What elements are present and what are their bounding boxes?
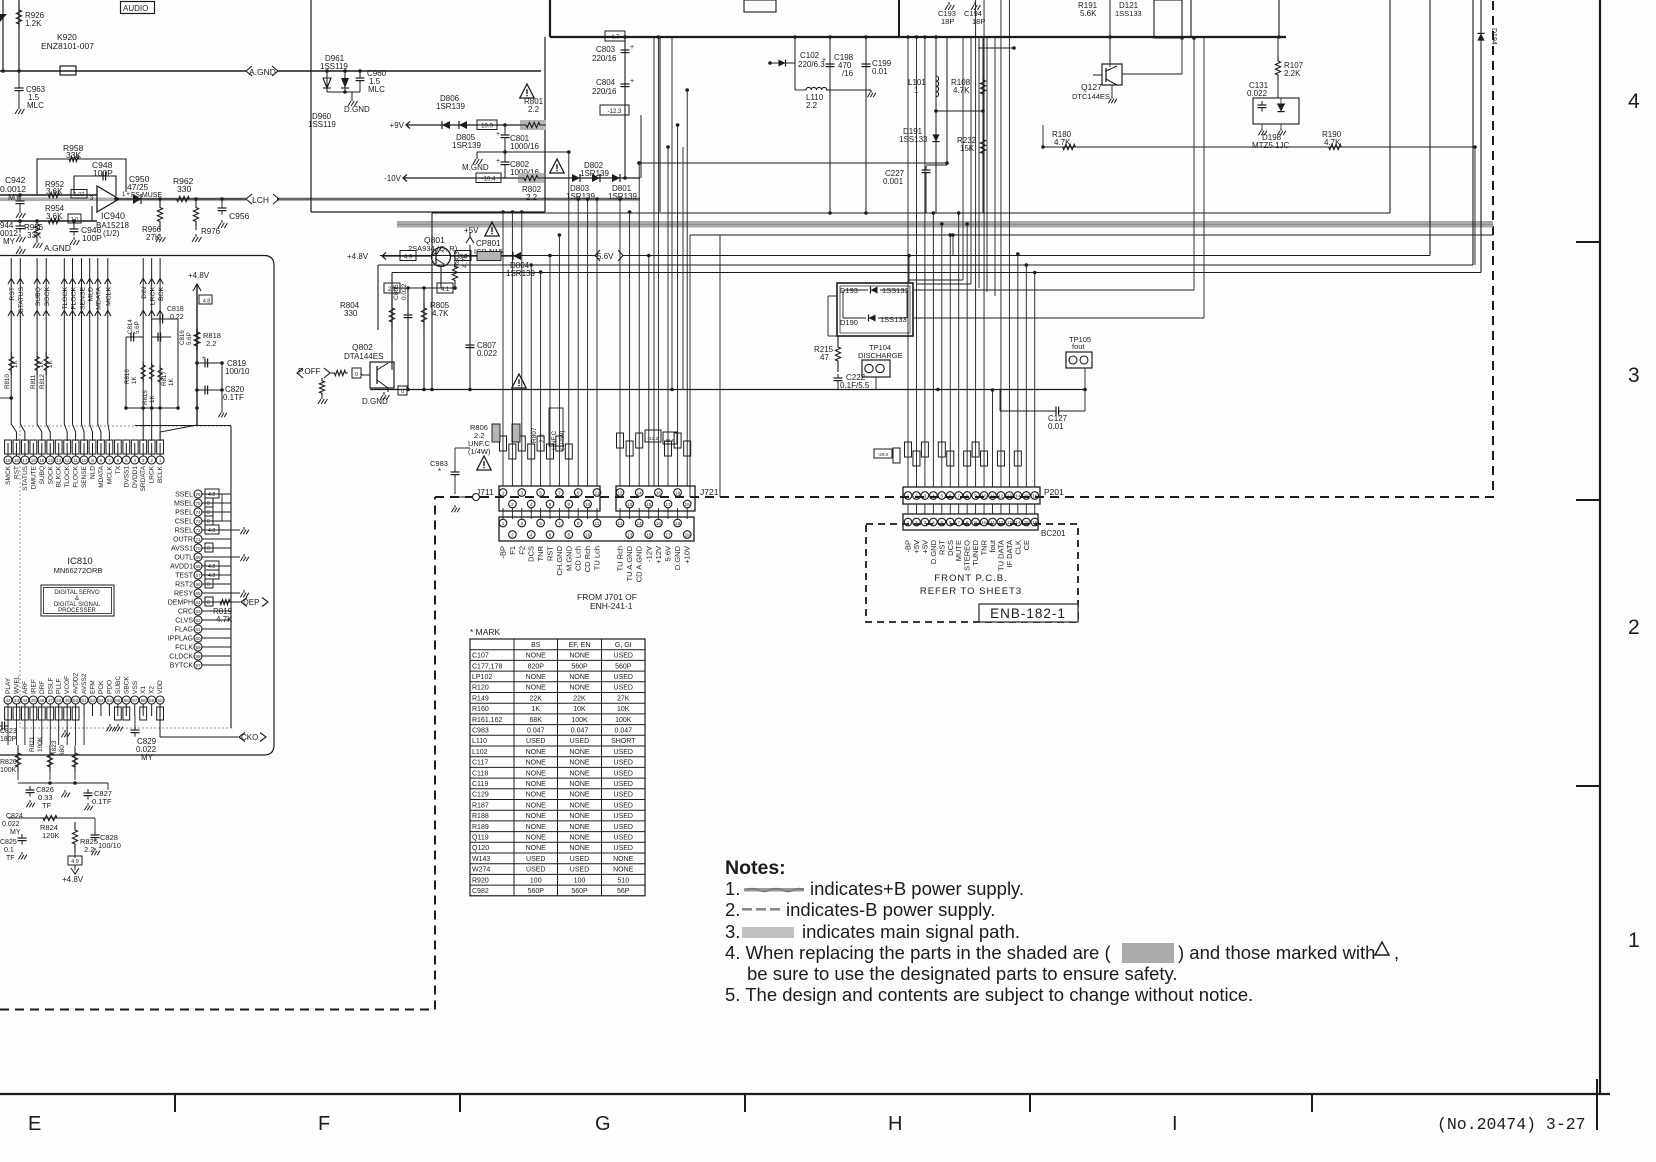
svg-text:7: 7 — [558, 521, 561, 526]
svg-text:R812: R812 — [39, 374, 46, 389]
svg-text:TEST: TEST — [175, 573, 194, 580]
svg-text:220/16: 220/16 — [592, 87, 617, 96]
svg-text:BC201: BC201 — [1041, 529, 1066, 538]
svg-text:68: 68 — [195, 564, 201, 569]
svg-text:15: 15 — [646, 532, 652, 537]
svg-text:1K: 1K — [149, 395, 156, 403]
svg-text:RSEL: RSEL — [175, 528, 193, 535]
svg-text:RST2: RST2 — [175, 582, 193, 589]
svg-text:1: 1 — [502, 490, 505, 495]
svg-text:MSEL: MSEL — [174, 501, 193, 508]
svg-text:Q120: Q120 — [472, 845, 489, 852]
svg-text:18P: 18P — [941, 17, 954, 26]
svg-text:R920: R920 — [472, 877, 489, 884]
svg-text:R188: R188 — [472, 813, 489, 820]
svg-text:L102: L102 — [472, 749, 488, 756]
svg-text:1K: 1K — [168, 378, 175, 386]
svg-text:SHORT: SHORT — [611, 738, 636, 745]
svg-text:NONE: NONE — [569, 781, 590, 788]
svg-text:PCK: PCK — [98, 680, 105, 694]
svg-text:CD Rch: CD Rch — [583, 546, 592, 572]
svg-text:4: 4 — [530, 502, 533, 507]
svg-text:17: 17 — [665, 532, 671, 537]
svg-text:LRCK: LRCK — [149, 465, 156, 483]
svg-text:11: 11 — [595, 521, 600, 526]
svg-text:16: 16 — [656, 490, 662, 495]
svg-text:11: 11 — [595, 490, 600, 495]
svg-text:+: + — [202, 355, 206, 362]
svg-text:72: 72 — [195, 528, 201, 533]
svg-text:C983: C983 — [472, 728, 489, 735]
svg-text:USED: USED — [570, 856, 589, 863]
svg-text:8: 8 — [568, 502, 571, 507]
svg-text:4.8: 4.8 — [208, 528, 215, 534]
svg-text:9: 9 — [91, 458, 94, 463]
svg-text:NONE: NONE — [526, 674, 547, 681]
svg-text:RST: RST — [9, 287, 16, 301]
svg-text:19: 19 — [5, 458, 11, 463]
svg-text:AUDIO: AUDIO — [123, 4, 148, 13]
svg-text:DTA144ES: DTA144ES — [344, 352, 383, 361]
svg-text:R976: R976 — [201, 227, 221, 236]
svg-text:0.1TF: 0.1TF — [223, 393, 244, 402]
svg-text:PLAY: PLAY — [5, 677, 12, 694]
svg-text:15: 15 — [39, 458, 45, 463]
svg-text:L110: L110 — [472, 738, 487, 745]
svg-text:11: 11 — [990, 493, 995, 498]
svg-text:be sure to use the designated: be sure to use the designated parts to e… — [747, 963, 1178, 984]
svg-text:OUTL: OUTL — [174, 555, 193, 562]
svg-text:MY: MY — [141, 753, 154, 762]
svg-text:indicates main signal path.: indicates main signal path. — [802, 921, 1020, 942]
svg-text:R821: R821 — [29, 736, 36, 752]
svg-text:ENZ8101-007: ENZ8101-007 — [41, 41, 94, 51]
svg-text:8: 8 — [100, 458, 103, 463]
svg-text:R161,162: R161,162 — [472, 717, 502, 724]
svg-text:EF, EN: EF, EN — [569, 642, 591, 649]
svg-text:61: 61 — [195, 627, 201, 632]
svg-text:(1/4W): (1/4W) — [559, 431, 566, 451]
svg-text:MLD: MLD — [88, 287, 95, 301]
svg-text:TLOCK: TLOCK — [64, 465, 71, 487]
svg-text:10K: 10K — [617, 706, 630, 713]
svg-text:53: 53 — [98, 698, 104, 703]
svg-text:BYTCK: BYTCK — [170, 663, 194, 670]
svg-text:9: 9 — [577, 490, 580, 495]
svg-text:7: 7 — [108, 458, 111, 463]
svg-text:NONE: NONE — [569, 685, 590, 692]
svg-text:62: 62 — [195, 618, 201, 623]
svg-text:4.8: 4.8 — [208, 492, 215, 498]
svg-text:51: 51 — [81, 698, 87, 703]
svg-text:13: 13 — [627, 502, 633, 507]
svg-text:12: 12 — [65, 458, 71, 463]
svg-text:57: 57 — [195, 663, 201, 668]
svg-text:SUBC: SUBC — [115, 676, 122, 694]
svg-text:12: 12 — [617, 490, 623, 495]
svg-text:5: 5 — [539, 490, 542, 495]
svg-text:100P: 100P — [93, 168, 113, 178]
svg-text:560P: 560P — [528, 888, 545, 895]
svg-text:-10.4: -10.4 — [482, 177, 496, 183]
svg-text:1.02: 1.02 — [74, 192, 85, 198]
svg-text:VDD: VDD — [157, 680, 164, 694]
svg-text:AVSS2: AVSS2 — [81, 673, 88, 694]
svg-text:0.022: 0.022 — [2, 821, 20, 828]
svg-text:USED: USED — [526, 738, 545, 745]
svg-text:14: 14 — [48, 458, 54, 463]
svg-text:(No.20474) 3-27: (No.20474) 3-27 — [1437, 1115, 1586, 1134]
svg-text:65: 65 — [195, 591, 201, 596]
svg-text:5.6P: 5.6P — [134, 321, 141, 334]
svg-text:1K: 1K — [47, 360, 54, 368]
svg-text:P201: P201 — [1044, 487, 1064, 497]
svg-text:LCH: LCH — [252, 195, 269, 205]
svg-text:BCK: BCK — [158, 287, 165, 301]
svg-text:50: 50 — [73, 698, 79, 703]
svg-text:NONE: NONE — [526, 749, 547, 756]
svg-text:0.047: 0.047 — [527, 728, 545, 735]
svg-text:USED: USED — [570, 867, 589, 874]
svg-text:74: 74 — [195, 510, 201, 515]
svg-text:100K: 100K — [615, 717, 632, 724]
svg-text:0: 0 — [207, 501, 210, 507]
svg-text:17: 17 — [22, 458, 28, 463]
svg-text:0.01: 0.01 — [1048, 422, 1064, 431]
svg-text:UNF.C: UNF.C — [551, 431, 558, 450]
svg-text:4: 4 — [133, 458, 136, 463]
svg-text:D.GND: D.GND — [673, 545, 682, 570]
svg-text:67: 67 — [195, 573, 201, 578]
svg-text:DMUTE: DMUTE — [30, 465, 37, 489]
svg-text:MLC: MLC — [368, 85, 385, 94]
svg-text:0.022: 0.022 — [1247, 89, 1268, 98]
svg-text:4.8: 4.8 — [208, 564, 215, 570]
svg-text:SOCK: SOCK — [44, 287, 51, 307]
svg-text:P.OFF: P.OFF — [298, 367, 321, 376]
svg-text:*: * — [438, 467, 441, 476]
svg-text:C118: C118 — [472, 770, 488, 777]
svg-text:12: 12 — [617, 521, 623, 526]
svg-text:F: F — [318, 1113, 330, 1135]
svg-text:BS: BS — [531, 642, 541, 649]
svg-text:55: 55 — [115, 698, 121, 703]
svg-text:MN66272ORB: MN66272ORB — [54, 566, 103, 575]
svg-text:PLLF: PLLF — [56, 678, 63, 694]
svg-text:FLOCK: FLOCK — [73, 465, 80, 487]
svg-text:R187: R187 — [472, 802, 489, 809]
svg-text:C825: C825 — [0, 839, 17, 846]
svg-text:16: 16 — [1032, 493, 1038, 498]
svg-text:RST: RST — [546, 546, 555, 561]
svg-text:5.6K: 5.6K — [1080, 9, 1097, 18]
svg-text:0.022: 0.022 — [477, 349, 498, 358]
svg-text:1K: 1K — [38, 360, 45, 368]
svg-text:1: 1 — [159, 458, 162, 463]
svg-text:120K: 120K — [42, 831, 60, 840]
svg-text:3: 3 — [1628, 364, 1640, 387]
svg-text:R160: R160 — [472, 706, 489, 713]
svg-text:4: 4 — [932, 493, 935, 498]
svg-text:NONE: NONE — [569, 653, 590, 660]
svg-text:TX: TX — [115, 465, 122, 474]
svg-text:0: 0 — [207, 546, 210, 552]
svg-text:USED: USED — [614, 653, 633, 660]
svg-text:6: 6 — [949, 493, 952, 498]
svg-text:47: 47 — [820, 353, 829, 362]
svg-text:NONE: NONE — [569, 770, 590, 777]
svg-text:R817: R817 — [161, 371, 168, 386]
svg-text:NONE: NONE — [569, 845, 590, 852]
svg-text:SBCK: SBCK — [123, 676, 130, 694]
svg-text:49: 49 — [65, 698, 71, 703]
svg-text:W274: W274 — [472, 867, 490, 874]
svg-text:1SR139: 1SR139 — [436, 102, 465, 111]
svg-text:-12V: -12V — [644, 546, 653, 562]
svg-text:4.8: 4.8 — [203, 299, 210, 305]
svg-text:0: 0 — [207, 510, 210, 516]
svg-text:DIN: DIN — [141, 287, 148, 299]
svg-text:13: 13 — [1007, 493, 1013, 498]
svg-text:44: 44 — [22, 698, 28, 703]
svg-text:R816: R816 — [124, 369, 131, 384]
svg-text:13: 13 — [627, 532, 633, 537]
svg-text:1: 1 — [914, 86, 919, 95]
svg-text:TF: TF — [42, 801, 52, 810]
svg-text:C117: C117 — [472, 760, 488, 767]
svg-text:5: 5 — [125, 458, 128, 463]
svg-text:USED: USED — [614, 835, 633, 842]
svg-text:1: 1 — [907, 493, 910, 498]
svg-text:Q802: Q802 — [352, 342, 373, 352]
svg-text:C814: C814 — [127, 319, 134, 334]
svg-text:560P: 560P — [615, 663, 632, 670]
svg-text:0.022: 0.022 — [401, 283, 408, 300]
svg-text:USED: USED — [614, 813, 633, 820]
svg-text:(1/2): (1/2) — [103, 229, 120, 238]
svg-text:2.2K: 2.2K — [1284, 69, 1301, 78]
svg-text:R815: R815 — [142, 390, 149, 405]
svg-text:DVSS1: DVSS1 — [123, 466, 130, 488]
svg-text:4.7K: 4.7K — [432, 309, 449, 318]
svg-text:0.001: 0.001 — [883, 177, 904, 186]
svg-text:+9V: +9V — [390, 121, 405, 130]
svg-text:C982: C982 — [472, 888, 489, 895]
svg-text:0: 0 — [207, 582, 210, 588]
svg-text:7: 7 — [957, 520, 960, 525]
svg-text:NONE: NONE — [569, 824, 590, 831]
svg-text:17: 17 — [665, 502, 671, 507]
svg-text:CD Lch: CD Lch — [574, 546, 583, 571]
svg-text:F2: F2 — [517, 546, 526, 555]
svg-text:75: 75 — [195, 501, 201, 506]
svg-text:2: 2 — [1628, 616, 1640, 639]
svg-text:USED: USED — [614, 802, 633, 809]
svg-text:C129: C129 — [472, 792, 489, 799]
svg-text:16: 16 — [656, 521, 662, 526]
svg-text:F1: F1 — [508, 546, 517, 555]
svg-text:7: 7 — [957, 493, 960, 498]
svg-text:100: 100 — [574, 877, 586, 884]
svg-text:G: G — [595, 1113, 611, 1135]
svg-text:5. The design and contents are: 5. The design and contents are subject t… — [725, 984, 1253, 1005]
svg-text:NONE: NONE — [526, 781, 547, 788]
svg-text:10: 10 — [585, 502, 591, 507]
svg-text:NLD: NLD — [90, 466, 97, 479]
svg-text:0.047: 0.047 — [571, 728, 589, 735]
svg-text:C816: C816 — [179, 330, 186, 345]
svg-text:CD A.GND: CD A.GND — [635, 545, 644, 582]
svg-text:560P: 560P — [571, 888, 588, 895]
svg-text:+: + — [630, 44, 634, 51]
svg-text:820P: 820P — [528, 663, 545, 670]
svg-text:1K: 1K — [531, 706, 540, 713]
svg-text:DRF: DRF — [39, 681, 46, 694]
svg-text:NONE: NONE — [569, 835, 590, 842]
svg-text:C177,178: C177,178 — [472, 663, 502, 670]
svg-text:13: 13 — [56, 458, 62, 463]
svg-text:0.1TF: 0.1TF — [92, 797, 112, 806]
svg-text:R807: R807 — [531, 427, 538, 443]
svg-text:68K: 68K — [530, 717, 543, 724]
svg-text:100P: 100P — [82, 233, 102, 243]
svg-text:indicates-B power supply.: indicates-B power supply. — [786, 899, 995, 920]
svg-text:ENH-241-1: ENH-241-1 — [590, 601, 633, 611]
svg-text:H: H — [888, 1113, 902, 1135]
svg-text:AVSS1: AVSS1 — [171, 546, 193, 553]
svg-text:SRDATA: SRDATA — [140, 465, 147, 491]
svg-text:14: 14 — [1015, 493, 1021, 498]
svg-text:/16: /16 — [842, 69, 854, 78]
svg-text:MTZ5.1JC: MTZ5.1JC — [1252, 141, 1290, 150]
svg-text:1000/16: 1000/16 — [510, 142, 539, 151]
svg-text:-29.0: -29.0 — [878, 452, 889, 457]
svg-text:USED: USED — [614, 685, 633, 692]
svg-text:* MARK: * MARK — [470, 627, 501, 637]
svg-text:4.9: 4.9 — [71, 859, 79, 865]
svg-text:1SR139: 1SR139 — [452, 141, 481, 150]
svg-text:E: E — [28, 1113, 41, 1135]
svg-text:5.6V: 5.6V — [597, 252, 614, 261]
svg-text:5: 5 — [941, 493, 944, 498]
svg-text:63: 63 — [195, 609, 201, 614]
svg-text:10: 10 — [585, 532, 591, 537]
svg-text:330: 330 — [177, 184, 191, 194]
svg-text:,: , — [1394, 942, 1399, 963]
svg-text:680: 680 — [59, 745, 66, 756]
svg-text:76: 76 — [195, 492, 201, 497]
svg-text:4: 4 — [1628, 90, 1640, 113]
svg-text:1SR139: 1SR139 — [608, 192, 637, 201]
svg-text:C119: C119 — [472, 781, 488, 788]
svg-text:14: 14 — [637, 521, 643, 526]
svg-text:3: 3 — [521, 521, 524, 526]
svg-text:-BP: -BP — [499, 546, 508, 559]
svg-text:C102: C102 — [800, 51, 820, 60]
svg-text:10.0: 10.0 — [481, 124, 493, 130]
svg-text:52: 52 — [90, 698, 96, 703]
svg-text:1K: 1K — [131, 376, 138, 384]
svg-text:TF: TF — [6, 855, 15, 862]
svg-text:60: 60 — [195, 636, 201, 641]
svg-text:-12.3: -12.3 — [608, 109, 622, 115]
svg-text:SUBQ: SUBQ — [39, 466, 46, 484]
svg-text:TLOCK: TLOCK — [62, 287, 69, 310]
svg-text:2.2: 2.2 — [539, 434, 546, 443]
svg-text:CH.GND: CH.GND — [555, 545, 564, 575]
svg-text:10K: 10K — [573, 706, 586, 713]
svg-text:USED: USED — [526, 856, 545, 863]
svg-text:100K: 100K — [37, 736, 44, 752]
svg-text:SOCK: SOCK — [47, 465, 54, 484]
svg-text:2: 2 — [511, 532, 514, 537]
svg-text:IC940: IC940 — [101, 211, 125, 221]
svg-text:4.7K: 4.7K — [216, 615, 233, 624]
svg-text:AVDD1: AVDD1 — [170, 564, 193, 571]
svg-text:AVDD2: AVDD2 — [73, 672, 80, 694]
svg-text:48: 48 — [56, 698, 62, 703]
svg-text:1SS133: 1SS133 — [899, 135, 928, 144]
svg-text:100/10: 100/10 — [225, 367, 250, 376]
svg-text:0.1F/5.5: 0.1F/5.5 — [840, 381, 870, 390]
svg-text:MCLK: MCLK — [106, 287, 113, 306]
svg-text:59: 59 — [149, 698, 155, 703]
svg-text:NONE: NONE — [526, 813, 547, 820]
svg-text:SMCK: SMCK — [5, 465, 12, 484]
svg-text:2: 2 — [915, 493, 918, 498]
svg-text:WVEL: WVEL — [13, 675, 20, 694]
svg-text:MY: MY — [10, 829, 21, 836]
svg-text:5: 5 — [539, 521, 542, 526]
svg-text:VSS: VSS — [132, 680, 139, 694]
svg-text:C805: C805 — [393, 284, 400, 300]
svg-text:60: 60 — [158, 698, 164, 703]
svg-text:NONE: NONE — [569, 802, 590, 809]
svg-text:+10V: +10V — [683, 546, 692, 564]
svg-text:C804: C804 — [596, 78, 616, 87]
svg-text:+4.8V: +4.8V — [188, 271, 210, 280]
svg-text:TU A.GND: TU A.GND — [625, 545, 634, 581]
svg-text:USED: USED — [614, 760, 633, 767]
svg-text:16: 16 — [31, 458, 37, 463]
svg-text:6: 6 — [117, 458, 120, 463]
svg-text:180P: 180P — [0, 736, 17, 743]
svg-text:56: 56 — [124, 698, 130, 703]
svg-text:BCLK: BCLK — [157, 465, 164, 483]
svg-text:12: 12 — [998, 493, 1004, 498]
svg-text:M.GND: M.GND — [564, 545, 573, 571]
svg-text:USED: USED — [614, 749, 633, 756]
svg-text:2.2: 2.2 — [806, 101, 818, 110]
svg-text:220/16: 220/16 — [592, 54, 617, 63]
svg-text:6: 6 — [549, 532, 552, 537]
svg-text:1: 1 — [1628, 929, 1640, 952]
svg-text:VCOF: VCOF — [64, 676, 71, 694]
svg-text:1SS133: 1SS133 — [880, 315, 907, 324]
svg-text:CRC: CRC — [178, 609, 193, 616]
svg-text:560P: 560P — [571, 663, 588, 670]
svg-text:OUTR: OUTR — [173, 537, 193, 544]
svg-text:MLC: MLC — [27, 101, 44, 110]
svg-text:CLVS: CLVS — [175, 618, 193, 625]
svg-text:+: + — [496, 158, 500, 165]
svg-text:19: 19 — [685, 502, 691, 507]
svg-text:PDO: PDO — [106, 680, 113, 694]
svg-text:FLOCK: FLOCK — [70, 287, 77, 310]
svg-text:0.22: 0.22 — [170, 314, 184, 321]
svg-text:45: 45 — [31, 698, 37, 703]
svg-text:NONE: NONE — [526, 770, 547, 777]
